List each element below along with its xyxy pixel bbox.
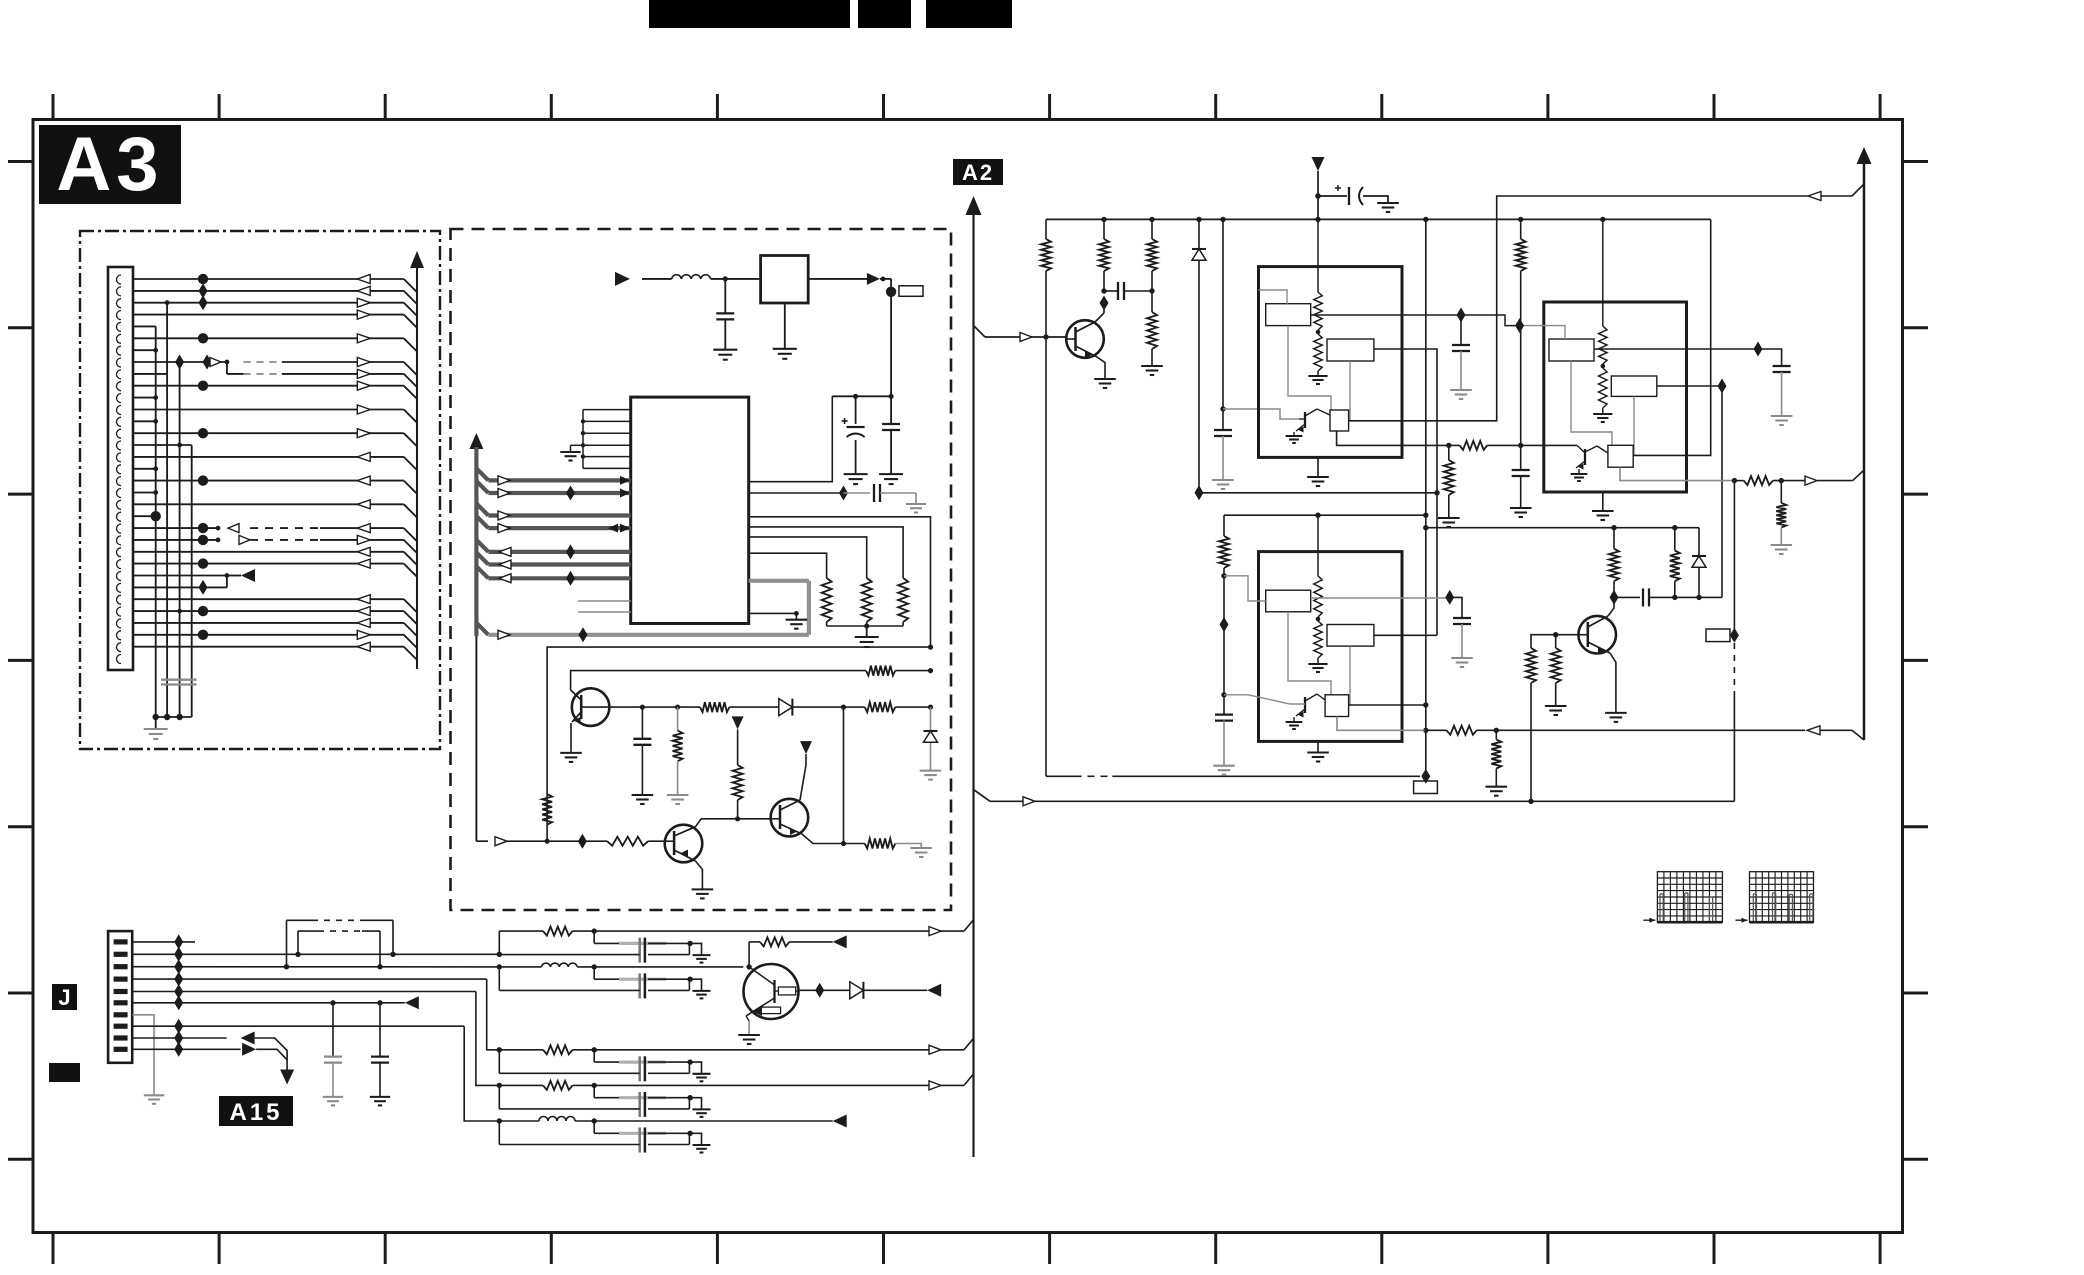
supply node dot bbox=[886, 287, 896, 297]
arrow on top net bbox=[1808, 192, 1821, 201]
bias net x1104 bbox=[1103, 219, 1105, 239]
Q5 collector bias row bbox=[748, 942, 750, 967]
filter channel 5 main (pin8 dogleg) bbox=[464, 1026, 499, 1121]
resistor R23 bbox=[1495, 730, 1497, 739]
title bar block 1 bbox=[649, 0, 850, 28]
resistor R14 bbox=[1147, 239, 1157, 271]
wire pin row 6 bbox=[133, 333, 417, 351]
Q3 emitter row bbox=[802, 834, 865, 844]
wire bus vertical 2 bbox=[166, 303, 168, 717]
resistor commons bbox=[827, 625, 904, 627]
ground for connector shield bbox=[155, 717, 157, 729]
middle module dashed boundary bbox=[451, 229, 952, 910]
title bar block 2 bbox=[858, 0, 911, 28]
capacitor C5 bbox=[641, 707, 643, 739]
connector J body bbox=[108, 931, 132, 1063]
voltage regulator U1 bbox=[761, 256, 809, 304]
U5 square output wire bbox=[1349, 704, 1426, 706]
U4 internal rail resistor lower bbox=[1601, 364, 1606, 369]
resistor R12 bbox=[1041, 239, 1051, 271]
transistor Q1 bbox=[572, 688, 610, 726]
wire pin row 32 bbox=[133, 642, 417, 660]
ground for R24 bbox=[1545, 705, 1567, 707]
frame tick marks top bbox=[53, 94, 1880, 120]
connector CN1 body bbox=[108, 267, 133, 670]
Q6 emitter ground bbox=[1097, 357, 1105, 379]
arrow output Q5 bbox=[927, 984, 941, 997]
ground for D2 bbox=[920, 770, 942, 772]
arrow channel 1 bbox=[929, 927, 941, 936]
wire pin row 8 bbox=[133, 355, 417, 376]
wire pin row 19 bbox=[133, 490, 158, 495]
waveform scope grid 1 bbox=[1643, 872, 1722, 923]
ground for J7 bbox=[144, 1094, 164, 1096]
resistor R3 bbox=[898, 578, 908, 622]
Q2 emitter ground bbox=[696, 861, 703, 889]
pin J4 wire bbox=[132, 978, 487, 980]
U5 block1 output wire bbox=[1311, 597, 1450, 599]
capacitor C11 bbox=[1773, 365, 1791, 367]
wire pin row 1 bbox=[133, 274, 417, 292]
U4 bottom ground bbox=[1602, 492, 1604, 511]
U4 internal link 1 bbox=[1571, 361, 1612, 445]
resistor R18 bbox=[1516, 239, 1526, 271]
svg-text:A2: A2 bbox=[962, 160, 994, 185]
bus wire y528 bbox=[476, 516, 630, 533]
bus wire y564 bbox=[476, 553, 630, 570]
bias net x1520 bbox=[1520, 219, 1522, 239]
resistor R6 bbox=[865, 702, 896, 712]
wire pin row 3 bbox=[133, 295, 417, 316]
option bracket inner bbox=[298, 930, 318, 932]
bias net x1046 bbox=[1045, 219, 1047, 239]
sheet label A2 bbox=[953, 159, 1003, 185]
pin J5 wire bbox=[132, 991, 476, 993]
ground for IC bbox=[786, 619, 808, 621]
capacitor C9 bbox=[1460, 315, 1462, 345]
IC outputs to pull resistors bbox=[749, 527, 903, 578]
pin J10 wire bbox=[132, 1048, 240, 1050]
U5 output square bbox=[1325, 695, 1349, 717]
capacitor C1 bbox=[724, 279, 726, 314]
U4 square output to rail1 corner bbox=[1633, 219, 1711, 455]
supply arrow for Q2/Q3 node bbox=[732, 716, 744, 729]
U3 block2 output wire bbox=[1374, 349, 1437, 635]
transistor Q8 internal bbox=[1584, 449, 1586, 465]
inductor L2 bbox=[542, 963, 578, 967]
pin J3 wire bbox=[132, 966, 499, 968]
resistor R26 bbox=[1674, 581, 1676, 597]
black legend block bbox=[49, 1063, 80, 1082]
supply arrow for Q3 collector bbox=[800, 741, 812, 754]
ground for C20 bbox=[323, 1096, 343, 1098]
resistor R11 bbox=[865, 839, 896, 849]
wire pin row 11 bbox=[133, 395, 158, 400]
ground for Q5 bbox=[738, 1034, 760, 1036]
U3 internal link 2 bbox=[1349, 361, 1351, 421]
capacitor C14 bbox=[1642, 588, 1644, 606]
resistor R27 bbox=[543, 927, 572, 936]
wire row A (bias top) bbox=[547, 647, 930, 841]
resistor R5 bbox=[700, 702, 729, 712]
ground for pin bundle bbox=[560, 451, 580, 453]
resistor R2 bbox=[862, 578, 872, 622]
U4 block1 output wire bbox=[1594, 348, 1758, 350]
resistor R16 bbox=[1460, 441, 1488, 450]
wire pin row 16 bbox=[133, 452, 417, 470]
rail 2a bbox=[1224, 514, 1426, 516]
left module dash-dot boundary bbox=[80, 231, 440, 749]
filter channel 1 main bbox=[498, 931, 500, 954]
option bracket outer bbox=[287, 919, 313, 921]
transistor Q2 bbox=[665, 825, 703, 863]
resistor R7 bbox=[677, 707, 679, 731]
transistor Q7 internal bbox=[1304, 412, 1306, 428]
resistor R17 bbox=[1448, 445, 1450, 460]
reference designator box bbox=[899, 286, 923, 297]
transistor Q6 bbox=[1066, 320, 1104, 358]
waveform scope grid 2 bbox=[1736, 872, 1814, 923]
ground for R23 bbox=[1486, 786, 1508, 788]
bias net x1152 bbox=[1151, 219, 1153, 239]
resistor R21 bbox=[1219, 536, 1229, 568]
wire bus vertical 1 bbox=[155, 326, 157, 717]
IC U2 upper pin bundle bbox=[571, 410, 631, 469]
U5 internal rail resistor lower bbox=[1316, 617, 1321, 622]
IC U2 bbox=[631, 397, 749, 623]
pin J8 wire bbox=[132, 1025, 464, 1027]
sheet label A3 bbox=[39, 122, 181, 207]
wire pin row 7 bbox=[133, 348, 158, 353]
ground for C11 bbox=[1771, 415, 1793, 417]
resistor R15 bbox=[1147, 312, 1157, 349]
bus rail arrow (to A2) bbox=[469, 433, 483, 449]
svg-text:A3: A3 bbox=[56, 122, 163, 207]
resistor R28 bbox=[760, 937, 789, 946]
capacitor C3 bbox=[890, 396, 892, 424]
U5 bottom ground bbox=[1317, 741, 1319, 752]
filter channel 2 main (pin3) bbox=[497, 964, 502, 969]
wire pin row 9 bbox=[133, 369, 417, 387]
pin J9 wire bbox=[132, 1037, 226, 1039]
resistor R20 bbox=[1780, 481, 1782, 503]
capacitor C4 bbox=[873, 484, 875, 502]
capacitor C7 bbox=[1104, 290, 1118, 292]
Q4 collector row bbox=[1614, 596, 1640, 598]
wire pin row 2 bbox=[133, 283, 417, 304]
bus bottom tie bbox=[156, 716, 192, 718]
electrolytic capacitor C2 bbox=[855, 396, 857, 424]
capacitor C21 bbox=[379, 1003, 381, 1057]
IC box U3 bbox=[1259, 267, 1403, 458]
capacitor C8 bbox=[1214, 429, 1232, 431]
dashed option wires rows 22-23 bbox=[216, 524, 320, 545]
IC U2 lower stubs bbox=[578, 600, 631, 602]
resistor R10 bbox=[607, 837, 648, 846]
ground for C6 bbox=[1377, 202, 1399, 204]
inductor L3 bbox=[539, 1117, 575, 1122]
arrow pin J9 bbox=[241, 1032, 255, 1045]
ground for C9 bbox=[1450, 389, 1472, 391]
bias net x1223 with capacitor bbox=[1222, 219, 1224, 430]
component box X1 bbox=[1414, 781, 1438, 794]
bus rail vertical bbox=[474, 447, 478, 636]
feedthrough capacitor C15 bbox=[593, 931, 595, 943]
Q5 emitter ground bbox=[746, 1016, 749, 1021]
resistor R1 bbox=[822, 578, 832, 622]
dashed link wire bbox=[1046, 775, 1075, 777]
wire pin row 5 bbox=[133, 325, 156, 327]
wire pin row 24 bbox=[133, 547, 417, 565]
capacitor C13 bbox=[1453, 617, 1471, 619]
output row y730 bbox=[1425, 729, 1447, 731]
U5 function block 2 bbox=[1327, 625, 1374, 647]
diode D3 branch bbox=[1198, 219, 1200, 249]
resistor R30 bbox=[543, 1081, 572, 1090]
transistor Q5 (digital) bbox=[744, 964, 799, 1019]
U5 block1 input link bbox=[1224, 576, 1266, 601]
capacitor C10 bbox=[1512, 469, 1530, 471]
Q4 collector wire bbox=[1608, 597, 1614, 616]
title bar block 3 bbox=[926, 0, 1012, 28]
U3 square output wire to top net bbox=[1349, 196, 1808, 421]
resistor R8 bbox=[733, 765, 743, 800]
net rail to top connector (up arrow) bbox=[416, 267, 418, 669]
IC output with RC to ground bbox=[749, 492, 844, 494]
wire pin row 26 bbox=[133, 569, 255, 582]
connector J pins bbox=[114, 939, 128, 1052]
inductor L1 bbox=[672, 275, 711, 279]
arrow channel 5 bbox=[833, 1115, 847, 1128]
wire pin row 23 bbox=[133, 535, 417, 553]
transistor Q4 bbox=[1556, 634, 1579, 636]
arrow channel 4 bbox=[929, 1081, 941, 1090]
ground for Q8 bbox=[1571, 473, 1588, 475]
IC output bus right 1 (bias vertical) bbox=[749, 517, 931, 647]
ground for R20 bbox=[1771, 544, 1793, 546]
ground for U1 bbox=[784, 303, 786, 349]
IC bottom-right ground stub bbox=[749, 613, 797, 619]
right edge net rail bbox=[1863, 160, 1866, 740]
supply arrow top bbox=[1312, 157, 1325, 171]
U3 function block 2 bbox=[1327, 339, 1374, 361]
U4 output square bbox=[1608, 445, 1633, 467]
zener diode D2 bbox=[930, 707, 932, 731]
U5 square bottom output bbox=[1337, 717, 1425, 731]
capacitor C20 bbox=[332, 1003, 334, 1057]
transistor Q9 internal bbox=[1304, 697, 1306, 713]
wire to regulator bbox=[711, 278, 761, 280]
wire to Q7 base bbox=[1223, 409, 1299, 419]
ground for C13 bbox=[1451, 657, 1473, 659]
svg-text:J: J bbox=[58, 985, 70, 1010]
svg-text:A15: A15 bbox=[229, 1099, 282, 1126]
supply rail to capacitors bbox=[832, 395, 891, 397]
feedthrough capacitor C17 bbox=[593, 1050, 595, 1062]
ground internal U4 bbox=[1593, 413, 1612, 415]
filter channel 3 main (pin4 dogleg) bbox=[487, 979, 500, 1050]
wire bus vertical 4 bbox=[191, 445, 193, 717]
capacitor C12 bbox=[1215, 713, 1233, 715]
wire pin row 10 bbox=[133, 381, 417, 399]
IC box U4 bbox=[1544, 302, 1687, 492]
IC output to supply rail bbox=[749, 396, 833, 481]
Q5 collector output row bbox=[799, 989, 850, 991]
wire pin row 25 bbox=[133, 558, 417, 576]
resistor R4 bbox=[866, 666, 895, 676]
arrow R28 bbox=[833, 935, 847, 948]
ground for R7 bbox=[667, 794, 689, 796]
bus wire y493 bbox=[476, 481, 630, 501]
left bias chain x1224 bbox=[1223, 515, 1225, 536]
ground for Q9 bbox=[1286, 721, 1303, 723]
resistor R29 bbox=[543, 1045, 572, 1054]
border frame bbox=[33, 120, 1903, 1233]
wire pin row 17 bbox=[133, 466, 158, 471]
wire D3 to box net bbox=[1199, 492, 1437, 494]
ground for C21 bbox=[370, 1096, 390, 1098]
ground for R17 bbox=[1438, 517, 1460, 519]
electrolytic capacitor C6 bbox=[1318, 195, 1347, 197]
wire pin row 14 bbox=[133, 428, 417, 446]
connector CN1 pin contacts bbox=[117, 275, 122, 664]
bypass capacitor across bus bbox=[161, 679, 197, 681]
arrow pin J6 bbox=[405, 996, 419, 1009]
wire pin row 13 bbox=[133, 419, 158, 424]
U5 block2 output wire bbox=[1374, 634, 1437, 636]
U4 internal rail resistor upper bbox=[1602, 219, 1604, 326]
ground for resistor bank bbox=[855, 636, 879, 638]
ground internal U3 bbox=[1308, 375, 1327, 377]
U3 square bottom output bbox=[1337, 431, 1449, 445]
U3 block1 output wire bbox=[1311, 314, 1461, 316]
diode D4 bbox=[1698, 528, 1700, 556]
resistor R24 bbox=[1555, 635, 1557, 648]
arrow on row y730 bbox=[1807, 726, 1820, 735]
ground for C12 bbox=[1213, 765, 1235, 767]
ground for Q1 bbox=[560, 752, 582, 754]
wire pin row 27 bbox=[133, 576, 227, 595]
ground internal U5 bbox=[1308, 663, 1327, 665]
Q2 base row bbox=[476, 840, 488, 842]
U3 bottom ground bbox=[1317, 457, 1319, 477]
wire pin row 21 bbox=[133, 511, 161, 521]
U3 internal link 1 bbox=[1288, 326, 1331, 410]
Q2 collector to Q3 base bbox=[696, 819, 771, 827]
ground for Q2 bbox=[692, 888, 714, 890]
ground for C8 bbox=[1212, 479, 1234, 481]
sheet label A15 bbox=[219, 1096, 293, 1126]
regulator output wire bbox=[808, 278, 868, 280]
net A2 vertical bbox=[972, 214, 974, 1157]
bus wire y578 bbox=[476, 566, 630, 586]
ground for Q6 bbox=[1094, 378, 1116, 380]
link diode junction to emitter row bbox=[843, 707, 845, 843]
U3 output square bbox=[1330, 410, 1349, 431]
wire pin row 15 bbox=[133, 443, 192, 448]
pin J7 wire to ground bbox=[132, 1015, 154, 1096]
wire pin row 22 bbox=[133, 523, 417, 541]
transistor Q3 bbox=[771, 799, 809, 837]
resistor R13 bbox=[1099, 239, 1109, 271]
ground for Q4 bbox=[1605, 712, 1627, 714]
dashed jumper wires rows 8-9 bbox=[227, 362, 282, 374]
U5 internal link 2 bbox=[1349, 646, 1351, 705]
wire pin row 28 bbox=[133, 595, 417, 613]
bus wire y515 bbox=[476, 504, 630, 521]
net x1734 vertical bbox=[1733, 481, 1735, 629]
ground for C5 bbox=[632, 794, 654, 796]
connector label J bbox=[52, 984, 77, 1010]
wire pin row 20 bbox=[133, 500, 417, 518]
U3 block1 input link bbox=[1259, 290, 1288, 304]
net x1531 with inline resistor bbox=[1530, 683, 1532, 801]
arrow output right bbox=[1805, 476, 1817, 485]
transistor Q6 base wire from A2 bbox=[974, 326, 986, 338]
input diamond U4 bbox=[1515, 318, 1524, 333]
channel1 return from pin2 bbox=[497, 952, 502, 957]
U5 function block 1 bbox=[1266, 590, 1311, 612]
resistor R25 bbox=[1613, 581, 1615, 597]
wire pin row 4 bbox=[133, 310, 417, 328]
feedthrough capacitor C16 bbox=[593, 967, 595, 979]
U5 internal rail resistor upper bbox=[1317, 515, 1319, 576]
bus wire y551 bbox=[476, 540, 630, 560]
arrow to A15 bbox=[280, 1070, 294, 1085]
feedthrough capacitor C18 bbox=[593, 1085, 595, 1097]
wire pin row 18 bbox=[133, 475, 417, 493]
U4 internal link 2 bbox=[1633, 396, 1635, 455]
bus wire y634 with loop bbox=[476, 581, 809, 643]
supply rail 1 bbox=[1046, 218, 1711, 220]
arrow pin J10 bbox=[242, 1043, 256, 1056]
U4 function block 1 bbox=[1549, 339, 1594, 361]
wire pin row 31 bbox=[133, 630, 417, 648]
arrow channel 3 bbox=[929, 1045, 941, 1054]
diode D1 bbox=[779, 699, 793, 716]
resistor R22 bbox=[1447, 726, 1477, 735]
wire pin row 29 bbox=[133, 606, 417, 624]
component box X2 bbox=[1706, 629, 1730, 642]
U4 function block 2 bbox=[1611, 376, 1657, 396]
diode D5 bbox=[850, 982, 864, 999]
U4 block1 input link bbox=[1520, 326, 1565, 339]
wire row B (Q1 collector feed) bbox=[571, 671, 866, 690]
frame tick marks left bbox=[8, 162, 33, 1160]
U3 internal rail resistor upper bbox=[1317, 219, 1319, 292]
pin J1 wire bbox=[132, 941, 195, 943]
ground for R11 bbox=[910, 847, 932, 849]
filter channel 4 main (pin5 dogleg) bbox=[476, 992, 499, 1086]
ground for C1 bbox=[713, 349, 737, 351]
bus wire y480 bbox=[476, 468, 630, 485]
signal input arrow bbox=[615, 272, 630, 286]
ground for Q7 bbox=[1286, 435, 1303, 437]
feedthrough capacitor C19 bbox=[593, 1121, 595, 1133]
pin J6 wire bbox=[132, 1002, 405, 1004]
net x1425 vertical bbox=[1425, 219, 1427, 776]
resistor R19 bbox=[1734, 480, 1743, 482]
U5 internal link 1 bbox=[1288, 612, 1331, 695]
wire pin row 12 bbox=[133, 405, 417, 423]
rail 2b bbox=[1426, 527, 1699, 529]
resistor R9 (inline on row A vertical) bbox=[542, 794, 552, 825]
ground for C4 bbox=[906, 503, 926, 505]
U4 square bottom output bbox=[1620, 467, 1734, 480]
wire pin row 30 bbox=[133, 618, 417, 636]
wire row C (Q1 collector out) bbox=[581, 706, 700, 708]
U3 internal rail resistor lower bbox=[1316, 330, 1321, 335]
